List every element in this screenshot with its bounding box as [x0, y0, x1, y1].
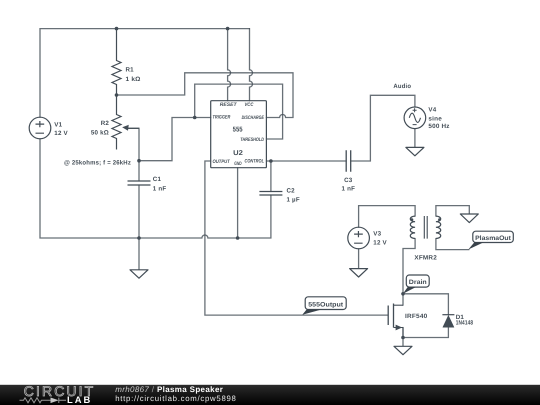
wire VCC vertical with hops: [250, 29, 253, 101]
svg-text:VCC: VCC: [245, 102, 254, 108]
wire V3 top to transformer primary: [359, 206, 416, 228]
ground under source: [394, 346, 412, 354]
footer logo schematic glyph: [20, 398, 67, 403]
node 555Output flag: [302, 297, 346, 315]
svg-text:sine: sine: [428, 115, 442, 122]
wire C3 to V4: [351, 95, 415, 161]
wire V1 bottom to ground bus with hop, up to C2: [40, 139, 271, 238]
svg-text:V1: V1: [54, 122, 62, 129]
wire V3 bottom to ground: [358, 249, 360, 269]
svg-text:R2: R2: [101, 120, 110, 127]
svg-text:12 V: 12 V: [373, 240, 387, 247]
footer bar: [0, 385, 540, 405]
svg-text:C1: C1: [153, 176, 162, 183]
svg-text:1N4148: 1N4148: [456, 320, 474, 327]
footer logo diode glyph: [51, 398, 59, 404]
wire R2 wiper: [126, 128, 139, 160]
wire primary bottom to drain: [403, 239, 415, 306]
transformer XFMR2: [410, 216, 440, 239]
op-amp U2 555 timer box: [211, 101, 267, 168]
ground under C1: [130, 270, 148, 278]
svg-text:50 kΩ: 50 kΩ: [91, 130, 109, 137]
wire secondary bottom to PlasmaOut: [436, 239, 469, 250]
svg-text:V3: V3: [373, 230, 381, 237]
wire R1 bottom to DISCHARGE with hop: [117, 73, 294, 118]
svg-text:OUTPUT: OUTPUT: [213, 159, 231, 165]
svg-text:LAB: LAB: [67, 394, 92, 405]
wire source to ground: [402, 328, 404, 347]
svg-text:R1: R1: [126, 66, 135, 73]
svg-text:C2: C2: [287, 187, 296, 194]
source V4 sine: [404, 107, 426, 129]
svg-text:CONTROL: CONTROL: [245, 158, 265, 164]
wire drain to D1: [403, 294, 448, 315]
node Drain flag: [403, 275, 429, 294]
R2 wiper arrowhead: [122, 125, 129, 131]
source V3: [348, 227, 370, 249]
source V1: [29, 117, 51, 139]
svg-text:U2: U2: [233, 150, 243, 157]
wire TRIGGER to THRESHOLD loop: [195, 84, 283, 139]
svg-text:GND: GND: [234, 161, 242, 167]
wire node to C1: [138, 161, 140, 181]
svg-text:DISCHARGE: DISCHARGE: [242, 115, 265, 121]
capacitor C3: [346, 150, 351, 171]
svg-text:TRIGGER: TRIGGER: [213, 115, 231, 121]
svg-text:1 nF: 1 nF: [342, 186, 356, 193]
wire V4 bottom to ground: [414, 129, 416, 148]
wire CONTROL to C3: [266, 160, 346, 162]
capacitor C2: [259, 192, 282, 196]
svg-text:RESET: RESET: [220, 102, 238, 108]
svg-text:C3: C3: [344, 177, 353, 184]
ground under V3: [350, 269, 368, 277]
wire C1 bottom to bus and ground: [138, 185, 140, 270]
wire OUTPUT to MOSFET gate: [205, 161, 388, 315]
svg-text:12 V: 12 V: [54, 130, 68, 137]
wire C2 top to CONTROL node: [270, 161, 272, 192]
svg-text:500 Hz: 500 Hz: [428, 123, 449, 130]
node PlasmaOut flag: [468, 231, 513, 249]
wire RESET vertical with hops: [228, 29, 231, 101]
svg-text:Audio: Audio: [393, 83, 411, 90]
transistor source arrow: [396, 325, 403, 331]
wire D1 anode to source: [403, 327, 448, 337]
svg-text:XFMR2: XFMR2: [414, 254, 437, 261]
svg-text:@ 25kohms; f = 26kHz: @ 25kohms; f = 26kHz: [64, 159, 131, 166]
svg-text:IRF540: IRF540: [405, 313, 428, 320]
svg-text:THRESHOLD: THRESHOLD: [240, 137, 264, 143]
ground right of secondary: [460, 214, 478, 223]
svg-text:V4: V4: [428, 107, 436, 114]
ground under V4: [406, 147, 424, 155]
wire left rail and top bus: [40, 29, 250, 118]
wire TRIGGER to pot node: [139, 118, 211, 161]
wire 555 GND pin to bus: [237, 168, 239, 238]
resistor R1: [112, 29, 121, 95]
transformer phase dots: [411, 218, 414, 221]
capacitor C1: [128, 181, 151, 185]
transistor Q1 IRF540: [388, 304, 403, 338]
svg-text:1 nF: 1 nF: [153, 186, 167, 193]
svg-text:1 µF: 1 µF: [287, 197, 300, 204]
svg-text:PlasmaOut: PlasmaOut: [475, 235, 512, 242]
potentiometer R2: [112, 95, 139, 150]
svg-text:1 kΩ: 1 kΩ: [126, 76, 141, 83]
svg-text:http://circuitlab.com/cpw5898: http://circuitlab.com/cpw5898: [115, 394, 236, 403]
diode D1: [442, 314, 454, 316]
svg-text:Drain: Drain: [409, 279, 427, 286]
svg-text:mrh0867 / Plasma Speaker: mrh0867 / Plasma Speaker: [115, 385, 223, 394]
wire secondary top to ground: [436, 206, 469, 217]
svg-text:555Output: 555Output: [308, 301, 344, 308]
svg-text:555: 555: [233, 127, 243, 134]
